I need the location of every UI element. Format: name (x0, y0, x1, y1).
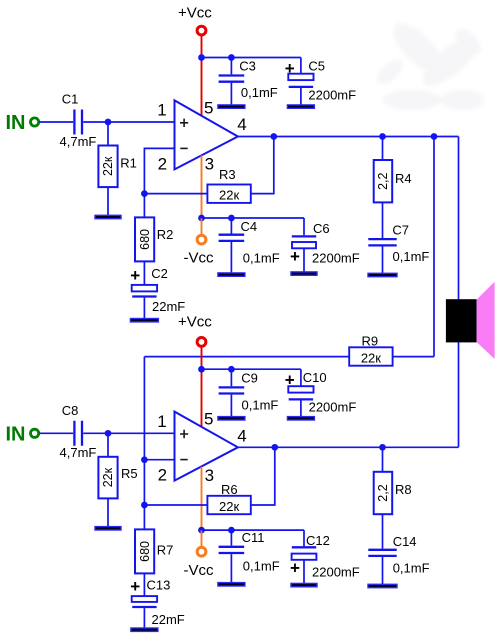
svg-text:22к: 22к (219, 188, 239, 203)
node R4 branch (379, 133, 386, 140)
value C10 2200mF (309, 399, 357, 414)
svg-text:22к: 22к (101, 156, 115, 176)
capacitor C3 (219, 76, 245, 82)
svg-text:C12: C12 (306, 533, 330, 548)
+Vcc rail wire (red) (201, 35, 203, 116)
wire R9 right (393, 356, 434, 358)
value C7 0,1mF (393, 249, 430, 264)
resistor R9 (349, 347, 392, 365)
svg-text:+: + (285, 59, 295, 78)
svg-text:2200mF: 2200mF (312, 251, 360, 266)
svg-text:+Vcc: +Vcc (178, 314, 212, 331)
svg-text:22mF: 22mF (152, 299, 185, 314)
wire C11 branch (230, 530, 232, 583)
wire inverting input U1 (144, 148, 174, 193)
label C13 (147, 577, 171, 592)
pin 2 label U2 (158, 466, 167, 485)
svg-text:R2: R2 (157, 227, 174, 242)
op-amp U1 pin3 wire (orange) (201, 155, 203, 218)
svg-text:C2: C2 (151, 266, 168, 281)
value C1 4,7mF (60, 134, 97, 149)
svg-text:22к: 22к (219, 499, 239, 514)
wire C1 to op-amp +in (83, 121, 174, 123)
svg-text:5: 5 (204, 98, 213, 117)
-Vcc terminal (bottom) (197, 547, 206, 556)
capacitor C1 (74, 110, 82, 135)
svg-text:C5: C5 (308, 59, 325, 74)
svg-text:2200mF: 2200mF (309, 399, 357, 414)
svg-text:C4: C4 (241, 219, 258, 234)
wire U2 output (238, 446, 459, 448)
node +Vcc rail junction (198, 54, 205, 61)
pin 1 label U2 (157, 412, 166, 431)
svg-text:C7: C7 (392, 223, 409, 238)
svg-text:22mF: 22mF (152, 612, 185, 627)
ground (C4) (218, 273, 245, 276)
wire output to R4 (382, 137, 384, 161)
capacitor C10 (288, 386, 313, 399)
wire C13 to ground (143, 608, 145, 628)
resistor R8 (374, 472, 393, 514)
capacitor C2 (132, 285, 157, 297)
node U1 output feedback (270, 133, 277, 140)
label C9 (241, 370, 258, 385)
capacitor C6 (292, 236, 316, 248)
wire C4 branch (230, 218, 232, 273)
resistor R4 (374, 160, 393, 202)
wire R6 to output node (251, 447, 275, 505)
resistor R2 (135, 217, 154, 261)
wire +Vcc rail to C3/C5 (202, 57, 301, 59)
pin 5 label U2 (204, 410, 213, 429)
svg-text:R1: R1 (120, 156, 137, 171)
ground (C6) (291, 272, 317, 275)
wire R2 to C2 (143, 261, 145, 285)
-Vcc terminal (top) (197, 235, 206, 244)
svg-text:C1: C1 (62, 91, 79, 106)
pin 2 label U1 (158, 154, 167, 173)
wire bridge vertical (143, 357, 145, 505)
node C4 top (228, 215, 235, 222)
svg-text:+: + (130, 577, 140, 596)
+Vcc terminal (top) (197, 26, 206, 35)
wire R5 to ground (107, 498, 109, 526)
resistor R6 (207, 496, 250, 514)
-Vcc label (top) (184, 250, 215, 267)
capacitor C5 (288, 74, 313, 87)
node U2 output feedback (271, 444, 278, 451)
node inverting input U2 (141, 456, 148, 463)
wire feedback node to R3 (144, 193, 207, 195)
wire junction to R1 (107, 122, 109, 146)
svg-text:2,2: 2,2 (376, 484, 390, 501)
value C3 0,1mF (241, 85, 278, 100)
wire U1 output (238, 136, 459, 138)
capacitor C13 (132, 596, 157, 607)
svg-text:R3: R3 (219, 167, 236, 182)
node R8 branch (379, 444, 386, 451)
svg-text:C6: C6 (313, 221, 330, 236)
+Vcc rail wire bottom (red) (201, 347, 203, 428)
plus sign C13 (130, 577, 140, 596)
wire feedback node to R7 (143, 505, 145, 529)
node U1 feedback (141, 190, 148, 197)
plus sign C10 (285, 370, 295, 389)
wire speaker - (458, 342, 460, 447)
wire R1 to ground (107, 187, 109, 215)
value C6 2200mF (312, 251, 360, 266)
wire C2 to ground (143, 298, 145, 319)
watermark (373, 15, 486, 110)
label C2 (151, 266, 168, 281)
wire junction to R5 (107, 433, 109, 457)
capacitor C14 (368, 550, 396, 556)
IN terminal (top) (30, 118, 38, 126)
ground (C9) (218, 417, 245, 420)
resistor R7 (135, 529, 154, 573)
node -Vcc rail (top) (198, 215, 205, 222)
wire feedback node to R6 (144, 504, 207, 506)
svg-text:IN: IN (6, 112, 26, 134)
resistor R5 (98, 457, 117, 499)
svg-text:22к: 22к (361, 351, 381, 366)
svg-text:3: 3 (205, 155, 214, 174)
wire -Vcc rail to C11/C12 (202, 529, 305, 531)
ground (C2) (130, 319, 158, 322)
svg-text:5: 5 (204, 410, 213, 429)
-Vcc stub (orange) (201, 218, 203, 235)
svg-text:+: + (285, 370, 295, 389)
-Vcc stub bottom (orange) (201, 530, 203, 547)
svg-text:C14: C14 (393, 534, 417, 549)
value C12 2200mF (312, 564, 360, 579)
+Vcc terminal (bottom) (197, 338, 206, 347)
node C11 top (228, 527, 235, 534)
wire C6 branch (303, 218, 305, 272)
node R9 link (431, 133, 438, 140)
wire feedback node to R2 (143, 194, 145, 218)
svg-text:4,7mF: 4,7mF (60, 445, 97, 460)
IN label (bottom) (6, 423, 26, 445)
value C11 0,1mF (243, 559, 280, 574)
label C4 (241, 219, 258, 234)
plus sign C12 (290, 558, 300, 577)
wire R8 to C14 (382, 514, 384, 549)
svg-text:C9: C9 (241, 370, 258, 385)
svg-text:0,1mF: 0,1mF (243, 559, 280, 574)
svg-text:2: 2 (158, 466, 167, 485)
ground (C10) (287, 417, 314, 420)
resistor R3 (207, 185, 250, 203)
label C8 (62, 403, 79, 418)
label C14 (393, 534, 417, 549)
svg-text:22к: 22к (101, 467, 115, 487)
svg-text:0,1mF: 0,1mF (241, 85, 278, 100)
wire R7 to C13 (143, 573, 145, 596)
wire IN to C8 (39, 432, 73, 434)
wire C8 to op-amp +in (83, 432, 174, 434)
pin 3 label U2 (205, 466, 214, 485)
label R6 (221, 482, 238, 497)
node C9 top (228, 366, 235, 373)
node C3 top (228, 54, 235, 61)
resistor R1 (98, 146, 117, 188)
label C10 (303, 370, 327, 385)
label R3 (219, 167, 236, 182)
ground (C3) (218, 105, 245, 108)
wire C3 branch (230, 58, 232, 106)
capacitor C7 (368, 239, 396, 245)
ground (C5) (287, 105, 314, 108)
label R8 (395, 482, 412, 497)
pin 4 label U2 (237, 427, 246, 446)
svg-text:C11: C11 (242, 530, 265, 545)
svg-text:0,1mF: 0,1mF (393, 560, 430, 575)
label C1 (62, 91, 79, 106)
svg-text:IN: IN (6, 423, 26, 445)
svg-text:2200mF: 2200mF (312, 564, 360, 579)
node input junction (top) (105, 119, 112, 126)
wire R9 link vertical (433, 137, 435, 357)
svg-text:3: 3 (205, 466, 214, 485)
ground (C7) (368, 273, 397, 276)
svg-text:2,2: 2,2 (376, 172, 390, 189)
node -Vcc rail (bottom) (198, 527, 205, 534)
svg-text:0,1mF: 0,1mF (242, 398, 279, 413)
value C9 0,1mF (242, 398, 279, 413)
wire IN to C1 (39, 121, 73, 123)
ground (C11) (218, 583, 245, 586)
wire +Vcc rail to C9/C10 (202, 368, 301, 370)
label R9 (362, 333, 379, 348)
wire R3 to output node (251, 137, 274, 194)
svg-text:C10: C10 (303, 370, 327, 385)
svg-text:4: 4 (237, 427, 246, 446)
plus sign C5 (285, 59, 295, 78)
+Vcc label (top) (178, 5, 212, 22)
svg-text:R8: R8 (395, 482, 412, 497)
svg-text:2200mF: 2200mF (308, 87, 356, 102)
value C14 0,1mF (393, 560, 430, 575)
capacitor C11 (219, 547, 245, 553)
svg-text:C3: C3 (239, 58, 256, 73)
pin 5 label U1 (204, 98, 213, 117)
label C5 (308, 59, 325, 74)
svg-text:0,1mF: 0,1mF (393, 249, 430, 264)
svg-text:R5: R5 (121, 466, 138, 481)
label R4 (395, 171, 412, 186)
wire -Vcc rail to C4/C6 (202, 217, 305, 219)
svg-text:R4: R4 (395, 171, 412, 186)
+Vcc label (bottom) (178, 314, 212, 331)
IN label (top) (6, 112, 26, 134)
pin 1 label U1 (157, 101, 166, 120)
svg-text:4,7mF: 4,7mF (60, 134, 97, 149)
ground (C13) (131, 628, 158, 631)
wire C7 to ground (382, 247, 384, 274)
ground (R1) (95, 215, 121, 218)
wire C14 to ground (382, 557, 384, 584)
label C11 (242, 530, 265, 545)
pin 3 label U1 (205, 155, 214, 174)
label C7 (392, 223, 409, 238)
label R7 (157, 542, 174, 557)
svg-text:1: 1 (157, 412, 166, 431)
svg-text:-Vcc: -Vcc (184, 562, 215, 579)
-Vcc label (bottom) (184, 562, 215, 579)
capacitor C12 (292, 547, 317, 560)
label C12 (306, 533, 330, 548)
op-amp U2 pin3 wire (orange) (201, 467, 203, 530)
svg-text:+Vcc: +Vcc (178, 5, 212, 22)
svg-text:680: 680 (138, 229, 152, 250)
wire R4 to C7 (382, 202, 384, 238)
capacitor C9 (219, 387, 245, 393)
capacitor C4 (219, 235, 245, 241)
svg-text:-Vcc: -Vcc (184, 250, 215, 267)
svg-text:+: + (290, 247, 300, 266)
label R2 (157, 227, 174, 242)
node U2 feedback (141, 502, 148, 509)
svg-text:R6: R6 (221, 482, 238, 497)
value C4 0,1mF (243, 251, 280, 266)
wire inverting input U2 (144, 459, 174, 461)
wire output to R8 (382, 447, 384, 472)
plus sign C6 (290, 247, 300, 266)
ground (C14) (368, 584, 397, 587)
node +Vcc rail junction (bottom) (198, 366, 205, 373)
label C3 (239, 58, 256, 73)
label C6 (313, 221, 330, 236)
svg-text:R7: R7 (157, 542, 174, 557)
svg-text:4: 4 (237, 115, 246, 134)
svg-text:+: + (290, 558, 300, 577)
value C8 4,7mF (60, 445, 97, 460)
label R5 (121, 466, 138, 481)
ground (C12) (291, 583, 317, 586)
value C5 2200mF (308, 87, 356, 102)
pin 4 label U1 (237, 115, 246, 134)
IN terminal (bottom) (30, 429, 38, 437)
value C2 22mF (152, 299, 185, 314)
svg-text:680: 680 (138, 541, 152, 562)
wire C12 branch (303, 530, 305, 583)
ground (R5) (95, 527, 121, 530)
wire output to speaker + (458, 137, 460, 301)
op-amp U1 (175, 100, 238, 169)
wire C5 branch (300, 58, 302, 106)
value C13 22mF (152, 612, 185, 627)
plus sign C2 (130, 266, 140, 285)
capacitor C8 (74, 421, 82, 446)
svg-text:2: 2 (158, 154, 167, 173)
svg-text:+: + (130, 266, 140, 285)
wire C9 branch (230, 369, 232, 417)
wire C10 branch (300, 369, 302, 417)
svg-text:R9: R9 (362, 333, 379, 348)
node input junction (bottom) (105, 430, 112, 437)
svg-text:C8: C8 (62, 403, 79, 418)
wire R9 left (144, 356, 349, 358)
svg-text:C13: C13 (147, 577, 171, 592)
svg-text:0,1mF: 0,1mF (243, 251, 280, 266)
speaker (446, 282, 495, 359)
svg-text:1: 1 (157, 101, 166, 120)
label R1 (120, 156, 137, 171)
op-amp U2 (175, 412, 238, 481)
